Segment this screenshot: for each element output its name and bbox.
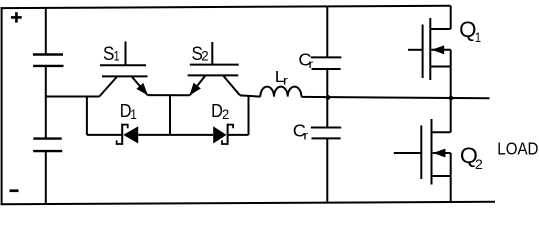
D2 cathode top hook [228,125,234,129]
wire: drop from mid wire down to D1 cathode [86,97,88,135]
svg-text:r: r [303,129,308,143]
diode D2 (points right) [213,124,233,145]
svg-text:r: r [308,57,313,71]
Q2 body stub [433,152,451,154]
wire: Cr rail between upper Cr and lower Cr (through junction) [326,69,328,128]
wire: left source rail [1,7,3,204]
capacitor Cr lower bottom plate [312,137,341,139]
transistor S2 (IGBT) [188,42,240,95]
S2 emitter leg [190,76,205,95]
Q2 source stub [432,175,451,177]
transistor Q2 (MOSFET) [394,98,451,202]
wire: diode rail middle segment (D1 to D2) [138,134,213,136]
label: + terminal [11,12,22,22]
Q1 drain riser to top rail [450,6,452,29]
node: junction dot at Cr rail [326,95,331,100]
svg-text:2: 2 [475,157,483,173]
S1 gate bar [100,64,146,66]
D2 cathode bar [227,124,229,145]
Q1 source drop to mid node [450,50,452,98]
S1 emitter arrowhead [136,83,148,96]
capacitor Cr lower top plate [311,127,341,129]
D1 cathode bottom hook [117,140,123,144]
svg-text:1: 1 [475,30,481,45]
wire: S2 collector to inductor [240,95,260,96]
S2 collector leg [224,76,240,95]
svg-text:1: 1 [114,47,120,63]
Q2 gate bar [420,126,422,180]
diode D1 (points left) [117,124,139,145]
capacitor: lower input cap bottom plate [33,150,62,152]
wire: capacitor leg top (rail to C upper) [45,8,47,55]
Q2 drain riser to mid node [450,98,452,132]
S1 body bar [102,75,148,77]
wire: bottom DC rail [1,202,496,204]
S1 gate lead [125,42,127,66]
D2 triangle [213,126,226,143]
S2 emitter arrowhead [190,83,201,96]
wire: capacitor leg bottom (C lower to bottom rail) [45,151,47,204]
wire: drop from emitter node down to diode midpoint [169,95,171,135]
S1 collector leg [99,77,116,97]
D1 cathode top hook [122,125,128,129]
wire: riser from diode rail up to mid wire [248,96,250,135]
Q1 source stub [430,66,450,68]
wire: inductor to output junction and across to Q bridge, ending at load stub [301,97,489,98]
S2 body bar [188,74,239,76]
wire: mid node horizontal (cap junction to S1 collector) [46,96,100,98]
svg-text:2: 2 [201,48,208,63]
D2 cathode bottom hook [222,140,228,144]
svg-text:LOAD: LOAD [497,139,538,159]
Q1 body stub [431,49,450,51]
Q2 body arrowhead [433,149,446,158]
label: - terminal [10,189,19,192]
capacitor Cr upper bottom plate [312,68,341,70]
D1 triangle [123,126,138,143]
wire: emitter common node horizontal (S1 to S2) [148,94,190,96]
Q1 gate lead [408,49,423,51]
Q1 body arrowhead [432,45,445,54]
wire: diode rail right segment (D2 bar to riser) [228,134,249,136]
svg-text:Q: Q [459,17,476,42]
S2 gate bar [190,64,239,66]
wire: capacitor leg middle (C upper to C lower through mid node) [45,66,47,139]
S2 gate lead [211,42,213,65]
transistor Q1 (MOSFET) [408,6,451,98]
Q1 gate bar [422,25,424,79]
svg-text:2: 2 [222,107,229,122]
D1 cathode bar [121,124,123,145]
wire: diode rail left segment (drop to D1 bar) [87,134,122,136]
transistor S1 (IGBT) [99,42,148,97]
capacitor: upper input cap top plate [33,53,63,55]
wire: top DC rail [1,6,451,8]
node: junction dot at Q1/Q2 midpoint [449,96,454,101]
S1 emitter leg [132,77,148,95]
capacitor Cr upper top plate [311,56,342,58]
wire: Cr rail from lower Cr to bottom rail [326,138,328,202]
svg-text:r: r [283,74,288,88]
Q1 drain stub [430,28,450,30]
wire: Cr rail from top rail to upper Cr [326,6,328,57]
Q2 gate lead [394,152,422,154]
capacitor: upper input cap bottom plate [33,65,63,67]
Q2 source drop to bottom rail [450,153,452,202]
capacitor: lower input cap top plate [33,137,61,139]
inductor Lr [260,87,301,97]
svg-text:1: 1 [130,107,137,123]
Q1 channel bar [429,18,431,80]
Q2 drain stub [432,131,451,133]
Q2 channel bar [431,119,433,185]
